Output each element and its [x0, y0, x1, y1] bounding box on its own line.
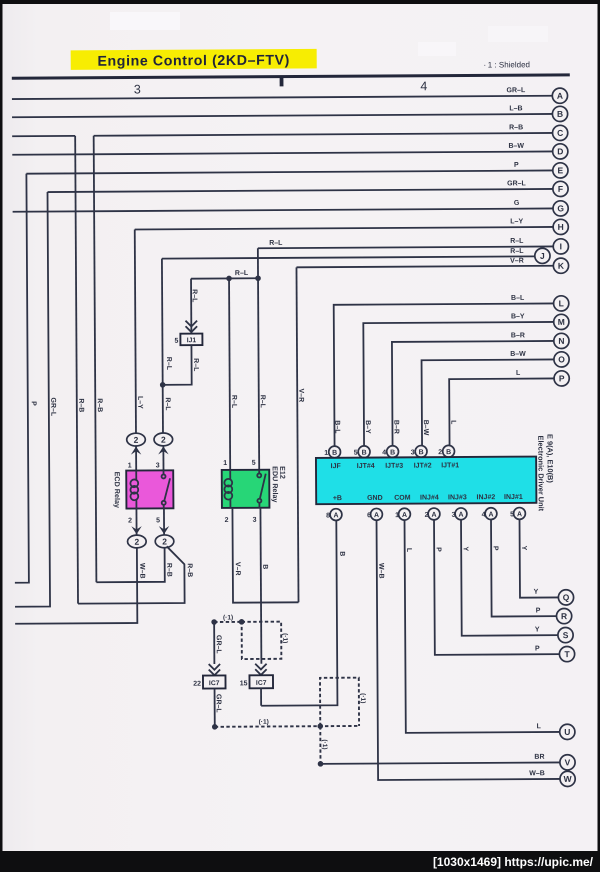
svg-text:L: L [516, 370, 521, 377]
wire O (B-W) to IJT#2 [421, 351, 554, 446]
svg-text:W–B: W–B [138, 563, 145, 579]
svg-text:A: A [557, 91, 563, 101]
svg-text:IJ1: IJ1 [187, 337, 197, 344]
svg-text:5: 5 [156, 517, 160, 524]
pin 2A of ECU [425, 508, 440, 520]
wire I (R-L) [258, 238, 554, 249]
svg-text:INJ#1: INJ#1 [504, 494, 523, 501]
terminal D [553, 144, 568, 159]
node at shield drain left [212, 724, 218, 730]
svg-text:R–B: R–B [509, 124, 523, 131]
svg-text:(·1): (·1) [223, 614, 233, 621]
wire Y from ECU INJ#1 to terminal Q [520, 519, 559, 598]
connector arrow into right circle [158, 446, 168, 454]
svg-text:R–B: R–B [165, 563, 172, 577]
terminal B [552, 106, 567, 121]
svg-text:3: 3 [134, 82, 141, 96]
wire L from ECU COM to terminal U [405, 519, 560, 733]
svg-text:B–Y: B–Y [364, 420, 371, 434]
svg-text:INJ#3: INJ#3 [448, 494, 467, 501]
terminal I [553, 239, 568, 254]
svg-text:[1030x1469] https://upic.me/: [1030x1469] https://upic.me/ [433, 855, 594, 869]
svg-text:R–B: R–B [186, 563, 193, 577]
svg-text:Y: Y [520, 546, 527, 551]
svg-text:B–W: B–W [510, 351, 526, 358]
svg-text:IC7: IC7 [209, 680, 220, 687]
svg-text:V–R: V–R [234, 562, 241, 576]
terminal Q [558, 590, 573, 605]
wire GR-L down to IC7 [213, 622, 215, 664]
svg-text:5: 5 [174, 338, 178, 345]
wire C left segment (R-B) [12, 135, 75, 137]
svg-text:A: A [488, 511, 493, 518]
svg-text:1: 1 [128, 463, 132, 470]
svg-text:B: B [390, 449, 395, 456]
wire from ECD pin 2 [135, 509, 137, 535]
wire P from ECU INJ#2 to terminal R [491, 519, 557, 616]
terminal E [553, 163, 568, 178]
wire R-L drop into IJ1 [190, 279, 192, 334]
svg-text:1: 1 [324, 450, 328, 457]
svg-text:Y: Y [535, 626, 540, 633]
svg-text:A: A [333, 512, 338, 519]
pin 6A of ECU [367, 508, 382, 520]
svg-text:L–Y: L–Y [510, 218, 523, 225]
wire R-B from connector down to R-B#2 drop [96, 548, 165, 582]
svg-text:R–L: R–L [235, 270, 249, 277]
EDU relay coil [224, 470, 232, 508]
svg-text:A: A [374, 512, 379, 519]
node shield box corner [239, 619, 245, 625]
shield chevron above IJ1 [185, 321, 197, 332]
wire into ECD pin 3 [162, 446, 164, 470]
terminal M [554, 314, 569, 329]
wire G (G) [13, 200, 554, 212]
svg-text:2: 2 [438, 449, 442, 456]
svg-text:(·1): (·1) [321, 739, 328, 749]
terminal R [556, 608, 571, 623]
svg-text:N: N [558, 336, 564, 346]
svg-text:V–R: V–R [510, 258, 524, 265]
svg-text:B: B [261, 564, 268, 569]
svg-text:IJT#2: IJT#2 [414, 462, 432, 469]
connector 2 below ECD relay pin 2 [128, 535, 147, 548]
tick mark [280, 77, 284, 86]
wire R-L vertical to EDU relay pin 1 [229, 278, 230, 469]
wire R-L vertical from I to EDU relay pin 5 [258, 248, 259, 469]
svg-text:3: 3 [253, 517, 257, 524]
wire B from EDU pin 3 down to IC7 [259, 508, 262, 664]
svg-text:3: 3 [411, 449, 415, 456]
svg-text:5: 5 [354, 450, 358, 457]
svg-text:A: A [402, 512, 407, 519]
svg-text:(·1): (·1) [259, 719, 269, 726]
terminal L [554, 296, 569, 311]
svg-text:G: G [514, 200, 520, 207]
svg-text:2: 2 [128, 518, 132, 525]
wire B from ECU +B down to IC7 junction [260, 520, 346, 705]
svg-text:INJ#4: INJ#4 [420, 494, 439, 501]
svg-text:C: C [557, 128, 563, 138]
svg-text:R–L: R–L [510, 248, 524, 255]
terminal A [552, 88, 567, 103]
wire M (B-Y) to IJT#4 [363, 313, 555, 446]
terminal W [560, 771, 575, 786]
svg-text:B–R: B–R [511, 332, 525, 339]
svg-text:R–L: R–L [510, 238, 524, 245]
terminal T [559, 646, 574, 661]
relay EDU (E12) [222, 466, 288, 508]
svg-text:U: U [564, 727, 570, 737]
connector 2 above ECD relay pin 1 [127, 433, 146, 446]
junction connector IC7 pin 15 [249, 675, 273, 688]
wire R-L horizontal branch to IJ1 [191, 270, 258, 279]
electronic driver unit E9(A) E10(B) [316, 434, 555, 513]
svg-text:L: L [537, 723, 542, 730]
svg-text:1: 1 [223, 460, 227, 467]
svg-text:P: P [559, 373, 565, 383]
shield drain dashed drop [319, 726, 321, 764]
svg-text:J: J [540, 251, 545, 261]
svg-text:D: D [557, 146, 563, 156]
terminal H [553, 219, 568, 234]
wire BR to terminal V [320, 754, 560, 764]
svg-text:+B: +B [333, 495, 342, 502]
svg-text:IC7: IC7 [256, 680, 267, 687]
svg-text:I: I [560, 241, 562, 251]
relay ECD [113, 470, 174, 508]
svg-text:IJT#1: IJT#1 [441, 462, 459, 469]
svg-text:T: T [564, 649, 570, 659]
pin 4B of ECU [382, 446, 398, 458]
terminal P [554, 371, 569, 386]
svg-text:5: 5 [252, 460, 256, 467]
svg-text:· 1 : Shielded: · 1 : Shielded [483, 60, 530, 69]
pin 5A of ECU [510, 508, 525, 520]
title: Engine Control (2KD-FTV) [71, 49, 317, 70]
wire C right segment (R-B) [94, 124, 553, 136]
terminal S [558, 627, 573, 642]
wire N (B-R) to IJT#3 [392, 332, 555, 446]
svg-text:B–R: B–R [392, 420, 399, 434]
svg-text:4: 4 [420, 79, 427, 93]
terminal F [553, 181, 568, 196]
svg-text:(·1): (·1) [281, 633, 288, 643]
svg-text:COM: COM [394, 495, 411, 502]
shield box around EDU-IC7 wire [242, 622, 282, 659]
svg-text:A: A [431, 512, 436, 519]
junction where I drop meets IJ1 branch [255, 275, 261, 281]
pin 4A of ECU [482, 508, 497, 520]
wire K (V-R) [296, 257, 553, 267]
connector 2 below ECD relay pin 5 [155, 535, 174, 548]
svg-text:R–L: R–L [165, 357, 172, 371]
svg-text:IJT#3: IJT#3 [385, 463, 403, 470]
svg-text:2: 2 [134, 537, 139, 547]
svg-text:B: B [338, 551, 345, 556]
wire V-R from EDU pin 2 to K drop [232, 508, 298, 603]
terminal U [560, 724, 575, 739]
node drain junction [317, 723, 323, 729]
svg-text:R–L: R–L [191, 289, 198, 303]
svg-text:L–Y: L–Y [136, 396, 143, 409]
pin 1A of ECU [395, 508, 410, 520]
svg-text:GR–L: GR–L [215, 694, 222, 713]
connector arrow into lower-right circle [159, 526, 169, 534]
wire B below IC7 pin 15 [260, 688, 262, 705]
svg-text:P: P [435, 547, 442, 552]
svg-text:P: P [536, 607, 541, 614]
svg-text:Y: Y [534, 589, 539, 596]
svg-text:S: S [563, 630, 569, 640]
EDU relay switch [257, 470, 266, 508]
svg-text:O: O [558, 354, 565, 364]
svg-text:GR–L: GR–L [49, 397, 56, 416]
terminal V [560, 755, 575, 770]
svg-text:INJ#2: INJ#2 [477, 494, 496, 501]
terminal J [535, 248, 550, 263]
svg-text:B–W: B–W [508, 143, 524, 150]
wire W-B from ECU GND to terminal W [377, 519, 561, 780]
svg-text:EDU Relay: EDU Relay [271, 466, 280, 502]
svg-text:B–L: B–L [511, 295, 525, 302]
ECD relay coil [130, 470, 138, 508]
svg-text:(·1): (·1) [359, 693, 366, 703]
svg-text:P: P [514, 162, 519, 169]
svg-text:4: 4 [382, 449, 386, 456]
connector arrow into left circle [131, 446, 141, 454]
wire L (B-L) to IJF [333, 295, 555, 447]
svg-text:M: M [558, 317, 565, 327]
svg-text:P: P [535, 645, 540, 652]
connector 2 above ECD relay pin 3 [154, 433, 173, 446]
pin 3B of ECU [411, 446, 427, 458]
ECD relay switch [162, 470, 171, 508]
connector arrow into lower-left circle [131, 526, 141, 534]
svg-text:A: A [458, 512, 463, 519]
svg-text:IJT#4: IJT#4 [357, 463, 375, 470]
pin 5B of ECU [354, 446, 370, 458]
pin 8A of ECU [326, 509, 342, 521]
svg-text:P: P [30, 401, 37, 406]
wire W-B from ECD pin 2 to left edge [15, 548, 138, 624]
svg-text:3: 3 [156, 462, 160, 469]
svg-text:H: H [558, 222, 564, 232]
wire E (P) [26, 162, 553, 174]
svg-text:22: 22 [193, 681, 201, 688]
svg-text:K: K [558, 261, 565, 271]
svg-text:IJF: IJF [331, 463, 342, 470]
svg-text:L: L [559, 298, 564, 308]
wire H (L-Y) [135, 218, 554, 229]
pin 3A of ECU [452, 508, 467, 520]
wire F (GR-L) [47, 180, 553, 192]
svg-text:2: 2 [225, 517, 229, 524]
wire P vertical drop from E [12, 174, 28, 583]
shield chevron above IC7 pin15 [255, 664, 266, 675]
wire P from ECU INJ#4 to terminal T [434, 519, 560, 655]
svg-text:B: B [557, 109, 563, 119]
svg-text:B: B [419, 449, 424, 456]
wire R-L vertical from J to ECD relay pin 3 [162, 259, 163, 433]
wire A (GR-L) [12, 87, 553, 99]
svg-text:Engine Control (2KD–FTV): Engine Control (2KD–FTV) [97, 53, 290, 70]
svg-text:R–B: R–B [77, 398, 84, 412]
svg-text:R–L: R–L [164, 397, 171, 411]
svg-text:A: A [517, 511, 522, 518]
node on BR wire [318, 761, 324, 767]
svg-text:GR–L: GR–L [507, 180, 526, 187]
wire J (R-L) [162, 248, 535, 259]
svg-text:P: P [492, 546, 499, 551]
svg-text:2: 2 [161, 435, 166, 445]
junction connector IJ1 [180, 334, 202, 346]
wire from ECD pin 5 [163, 508, 165, 534]
shield box around B wire corner [320, 678, 359, 727]
svg-text:R–B: R–B [96, 398, 103, 412]
wire B (L-B) [12, 105, 553, 117]
svg-text:BR: BR [534, 754, 544, 761]
svg-text:GR–L: GR–L [215, 635, 222, 654]
wire GR-L vertical drop from F [13, 192, 51, 607]
wire R-B diagonal branch to R-B#1 drop [78, 546, 185, 603]
svg-text:Q: Q [563, 592, 570, 602]
bus rule [12, 73, 570, 79]
terminal N [554, 333, 569, 348]
svg-text:B–Y: B–Y [511, 313, 525, 320]
svg-text:E 9(A), E10(B): E 9(A), E10(B) [545, 434, 554, 483]
wire V-R vertical from K [296, 267, 298, 602]
svg-text:R: R [561, 611, 567, 621]
svg-text:E: E [558, 165, 564, 175]
svg-text:R–L: R–L [269, 240, 283, 247]
junction on EDU pin1 feed [226, 276, 232, 282]
svg-text:R–L: R–L [259, 395, 266, 409]
svg-text:2: 2 [134, 435, 139, 445]
svg-text:G: G [557, 203, 564, 213]
svg-text:W–B: W–B [377, 563, 384, 579]
junction on J drop [160, 382, 166, 388]
shield chevron above IC7 pin22 [209, 664, 220, 675]
wire R-B vertical drop from C right segment [94, 136, 97, 582]
node GR-L tap [211, 619, 217, 625]
svg-text:B–W: B–W [422, 420, 429, 436]
wire GR-L below IC7 [214, 689, 216, 727]
svg-text:B: B [362, 450, 367, 457]
wire L-Y vertical drop from H to ECD relay [135, 230, 136, 434]
svg-text:B: B [332, 450, 337, 457]
svg-text:B–L: B–L [333, 420, 340, 434]
svg-text:2: 2 [162, 537, 167, 547]
wire Y from ECU INJ#3 to terminal S [461, 519, 558, 636]
wire R-B vertical drop from C left segment [75, 136, 78, 604]
wire R-L from IJ1 down to J drop [162, 345, 191, 385]
wire into ECD pin 1 [135, 446, 137, 470]
svg-text:B: B [446, 449, 451, 456]
svg-text:GR–L: GR–L [507, 87, 526, 94]
svg-text:R–L: R–L [192, 358, 199, 372]
wire D (B-W) [12, 143, 553, 155]
svg-text:L: L [449, 420, 456, 425]
svg-text:R–L: R–L [230, 395, 237, 409]
terminal K [553, 258, 568, 273]
shield drain dashed wire [215, 725, 359, 728]
svg-text:V: V [565, 757, 571, 767]
svg-text:W: W [564, 774, 573, 784]
terminal O [554, 352, 569, 367]
svg-text:Y: Y [462, 546, 469, 551]
svg-text:ECD Relay: ECD Relay [113, 472, 122, 508]
terminal G [553, 201, 568, 216]
wire P (L) to IJT#1 [449, 370, 555, 446]
shield tie dashed stub [214, 621, 241, 623]
pin 1B of ECU [324, 446, 340, 458]
svg-text:GND: GND [367, 495, 383, 502]
svg-text:Electronic Driver Unit: Electronic Driver Unit [536, 436, 545, 512]
svg-text:W–B: W–B [529, 770, 545, 777]
svg-text:15: 15 [240, 680, 248, 687]
pin 2B of ECU [438, 445, 454, 457]
terminal C [553, 125, 568, 140]
junction connector IC7 pin 22 [203, 675, 226, 688]
svg-text:L–B: L–B [509, 105, 522, 112]
svg-text:F: F [558, 184, 563, 194]
svg-text:V–R: V–R [297, 388, 304, 402]
svg-text:L: L [405, 548, 412, 553]
